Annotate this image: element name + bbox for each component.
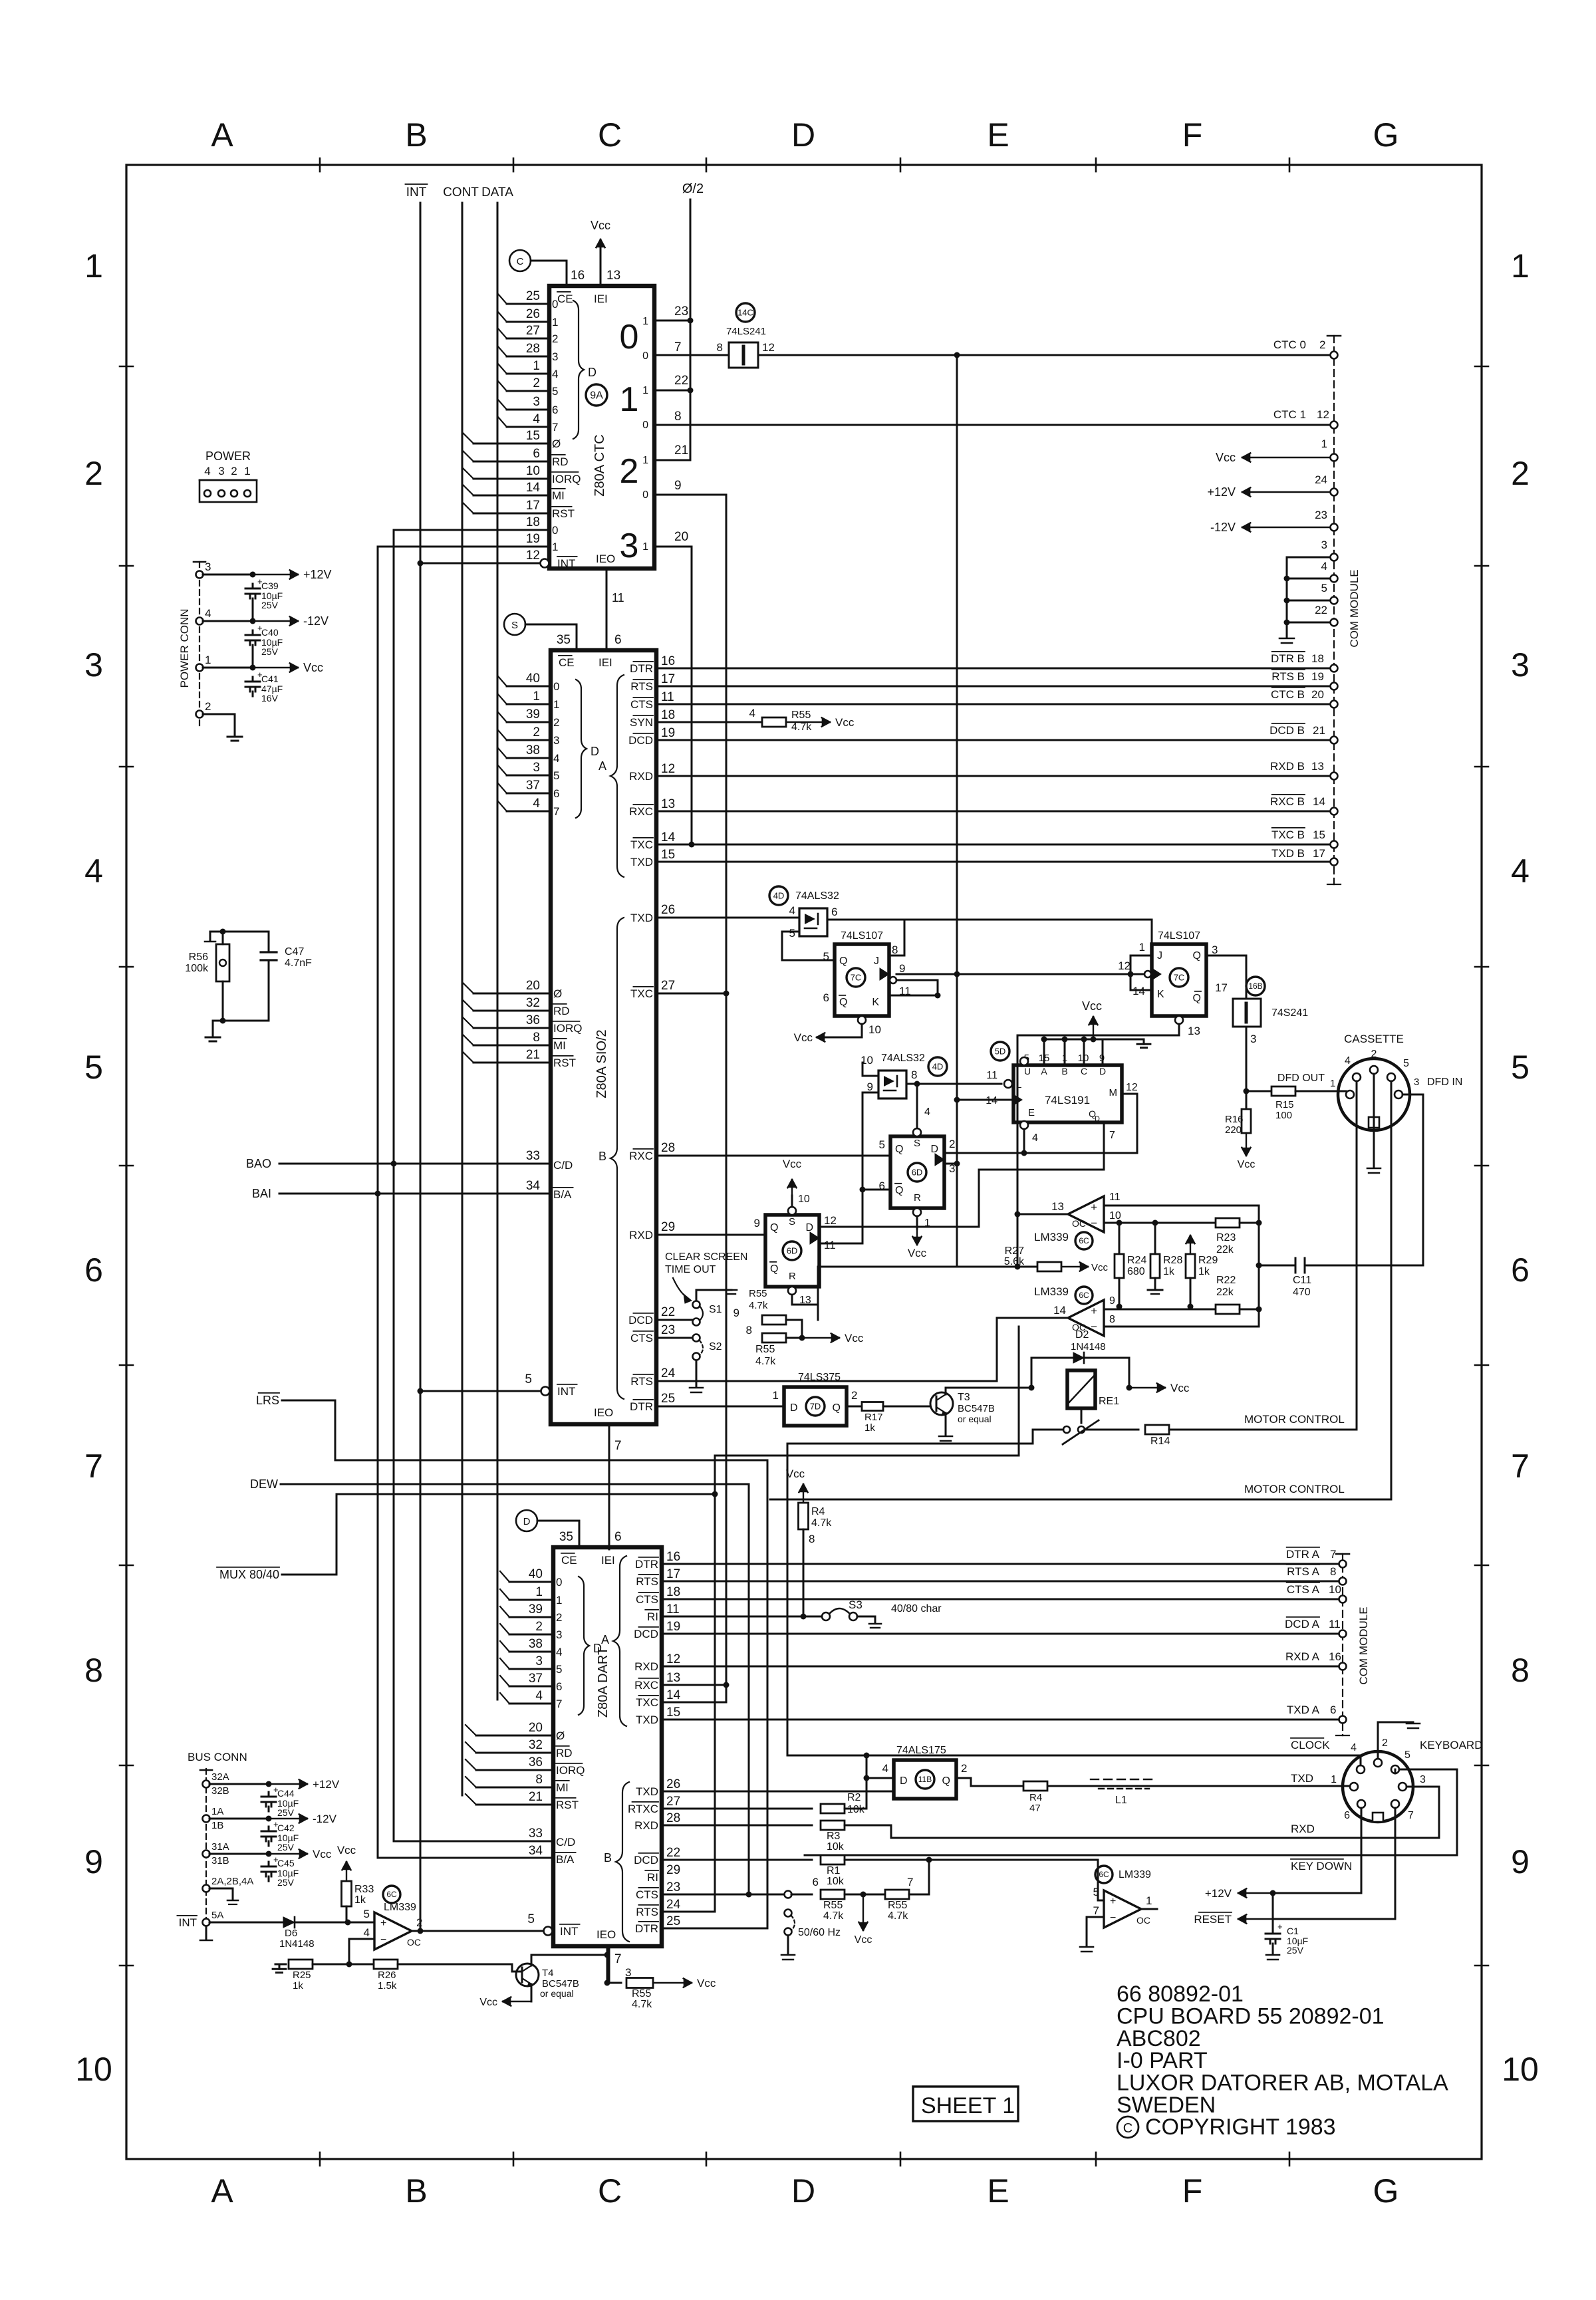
svg-text:Q: Q (1193, 950, 1201, 961)
keyboard pin 3 (1398, 1783, 1406, 1791)
svg-text:1k: 1k (1163, 1266, 1175, 1277)
wire CTC pin19 to trunk x568 (378, 546, 549, 548)
svg-text:7: 7 (1109, 1130, 1115, 1141)
IC 7C 74LS107 (left) body (835, 944, 889, 1016)
svg-text:27: 27 (666, 1795, 680, 1809)
designator 9A (586, 384, 607, 406)
wire keyboard CLOCK stub pin4 (1360, 1755, 1362, 1765)
svg-text:Ø: Ø (552, 438, 561, 450)
keyboard pin 4 (1357, 1765, 1365, 1773)
junction R27 node (1015, 1264, 1021, 1270)
svg-text:6: 6 (813, 1876, 819, 1888)
keyboard pin 5 (1391, 1765, 1399, 1773)
svg-text:DTR: DTR (635, 1558, 658, 1571)
svg-text:4: 4 (535, 1689, 543, 1703)
svg-text:100: 100 (1275, 1110, 1292, 1121)
wire FF Q up loop to comparator R27 line (818, 1267, 957, 1320)
svg-text:6: 6 (552, 404, 558, 416)
svg-text:40: 40 (526, 672, 540, 686)
svg-text:26: 26 (666, 1777, 680, 1791)
7C (right) pin 13 stub down (1175, 1016, 1183, 1024)
svg-text:6: 6 (823, 991, 829, 1004)
switch S3 40/80 char (822, 1612, 830, 1620)
cassette pin 5 (1387, 1073, 1395, 1081)
SIO chip-select circle S and wire to pin 35 CE (504, 614, 525, 635)
svg-text:RST: RST (553, 1057, 576, 1069)
svg-text:DTR B: DTR B (1271, 652, 1305, 665)
wire comp1 -input pin 10 (1104, 1222, 1216, 1224)
svg-text:15: 15 (666, 1706, 680, 1720)
keyboard pin 1 (1350, 1783, 1358, 1791)
svg-text:2: 2 (556, 1611, 562, 1624)
svg-text:4: 4 (924, 1106, 930, 1118)
resistor R56 100k / capacitor C47 network (220, 929, 226, 935)
svg-text:MI: MI (556, 1781, 569, 1794)
wire cassette pin5 down to motor control 2 (1391, 1081, 1393, 1499)
svg-text:35: 35 (557, 633, 571, 647)
svg-text:S: S (789, 1216, 795, 1227)
IC 6D flip-flop (right) body (890, 1136, 944, 1208)
svg-text:5: 5 (553, 769, 559, 782)
T3 collector wire to relay node (946, 1388, 1031, 1394)
wire SIO CTS A to COM B pin 20 (656, 703, 1330, 705)
svg-text:OC: OC (407, 1937, 421, 1948)
svg-text:36: 36 (529, 1755, 543, 1769)
svg-text:5: 5 (1404, 1749, 1410, 1761)
svg-text:47: 47 (1029, 1803, 1041, 1814)
svg-text:8: 8 (809, 1533, 815, 1545)
svg-text:6: 6 (84, 1251, 103, 1289)
svg-text:G: G (1373, 116, 1399, 154)
svg-text:20: 20 (526, 979, 540, 993)
svg-text:3: 3 (620, 527, 639, 565)
net trunk x1092 vertical (CTC pin9 baud clock down to DART RXC) (726, 495, 728, 1685)
svg-text:2: 2 (552, 332, 558, 345)
svg-text:4: 4 (882, 1762, 888, 1775)
cassette key notch (1369, 1117, 1379, 1128)
svg-text:6: 6 (533, 447, 540, 461)
cassette pin 2 (1370, 1066, 1378, 1074)
wire cassette pin3 DFD IN down to C11 line (1402, 1094, 1423, 1265)
capacitor C45 10uF 25V (268, 1862, 270, 1866)
svg-text:2: 2 (416, 1916, 422, 1929)
svg-text:MOTOR CONTROL: MOTOR CONTROL (1244, 1483, 1345, 1495)
junction relay left node (1029, 1385, 1035, 1391)
svg-text:1: 1 (556, 1594, 562, 1606)
svg-text:4.7k: 4.7k (755, 1356, 776, 1367)
svg-text:D: D (791, 2172, 815, 2210)
svg-text:+12V: +12V (303, 568, 332, 581)
svg-text:INT: INT (179, 1916, 197, 1929)
svg-text:2: 2 (961, 1762, 967, 1775)
svg-text:U: U (1024, 1066, 1031, 1077)
svg-text:C42: C42 (277, 1823, 295, 1833)
svg-text:SYN: SYN (630, 716, 653, 729)
resistor R55 4.7k (SYN pullup) (762, 717, 786, 727)
svg-text:Vcc: Vcc (1170, 1382, 1190, 1394)
wire DEW to DART CTS (281, 1484, 749, 1894)
SIO INT pin 5 with bubble (541, 1387, 550, 1396)
svg-text:IEO: IEO (594, 1406, 613, 1419)
COM B pin 2 CTC0 (1331, 352, 1338, 359)
svg-text:29: 29 (661, 1220, 675, 1234)
svg-text:9A: 9A (590, 390, 603, 402)
svg-text:+: + (1091, 1201, 1097, 1214)
svg-text:IEI: IEI (598, 656, 612, 669)
svg-text:F: F (1182, 116, 1203, 154)
svg-text:1: 1 (1330, 1078, 1335, 1089)
svg-text:TXD A: TXD A (1287, 1704, 1320, 1716)
wire SIO RXC B line to divider Q (658, 1155, 890, 1157)
svg-text:RXC B: RXC B (1270, 795, 1305, 808)
svg-text:13: 13 (666, 1671, 680, 1685)
svg-text:C/D: C/D (556, 1836, 575, 1849)
inductor L1 (dashed) (1091, 1779, 1157, 1780)
svg-text:21: 21 (674, 444, 688, 457)
wire comp2 output branch down x1532 (1018, 1327, 1020, 1456)
svg-text:4: 4 (749, 707, 755, 719)
svg-text:1k: 1k (293, 1980, 303, 1991)
DART control pins phi,RD,IORQ,M1,RST with bus entries (465, 1721, 585, 1811)
svg-text:470: 470 (1293, 1287, 1311, 1298)
grid column letters (211, 116, 1398, 2210)
svg-text:12: 12 (824, 1214, 837, 1227)
wire comp bottomright -input to ground (1087, 1917, 1104, 1946)
svg-text:680: 680 (1127, 1266, 1145, 1277)
svg-text:25: 25 (661, 1392, 675, 1406)
svg-text:Z80A SIO/2: Z80A SIO/2 (595, 1029, 609, 1098)
DART data pins D0-D7 (pins 40,1,39,2,38,3,37,4) with bus entries (500, 1567, 562, 1710)
svg-text:Q: Q (770, 1222, 778, 1233)
svg-text:1.5k: 1.5k (378, 1980, 397, 1991)
svg-text:12: 12 (1126, 1082, 1138, 1093)
svg-text:R15: R15 (1275, 1099, 1294, 1110)
grid ticks (120, 158, 1488, 2166)
svg-text:R2: R2 (847, 1792, 861, 1803)
svg-text:TXD: TXD (636, 1785, 658, 1798)
svg-text:13: 13 (1051, 1200, 1064, 1213)
svg-text:Q: Q (942, 1775, 950, 1787)
svg-text:1: 1 (533, 690, 540, 703)
svg-text:D: D (790, 1402, 798, 1414)
capacitor C44 10uF 25V (268, 1792, 270, 1797)
svg-text:37: 37 (529, 1672, 543, 1686)
svg-text:3: 3 (1414, 1077, 1419, 1088)
svg-text:3: 3 (205, 561, 211, 573)
svg-text:D: D (900, 1775, 908, 1787)
svg-text:3: 3 (533, 395, 540, 409)
svg-text:1: 1 (1146, 1894, 1152, 1907)
svg-text:8: 8 (911, 1069, 917, 1081)
capacitor C47 4.7nF (223, 932, 269, 952)
svg-text:KEYBOARD: KEYBOARD (1420, 1739, 1482, 1751)
wire 74ALS175 Q to keyboard TXD with R4 and L1 (956, 1778, 1346, 1786)
svg-text:2: 2 (620, 452, 639, 491)
svg-text:19: 19 (666, 1620, 680, 1634)
svg-text:RXD: RXD (634, 1660, 658, 1673)
svg-text:BUS CONN: BUS CONN (188, 1751, 247, 1763)
svg-text:Ø/2: Ø/2 (682, 182, 704, 196)
svg-text:3: 3 (1212, 944, 1218, 956)
svg-text:Z80A CTC: Z80A CTC (593, 434, 607, 496)
svg-text:6: 6 (553, 787, 559, 800)
svg-text:-12V: -12V (313, 1813, 337, 1825)
svg-text:25V: 25V (261, 600, 279, 610)
COM B pin RXD B 13 (1331, 773, 1338, 780)
POWER CONN pin 4 -12V (196, 618, 203, 625)
connector CASSETTE DIN body (1338, 1059, 1410, 1130)
wire SIO SYN pin18 to R55 pullup (656, 721, 762, 723)
svg-text:9: 9 (867, 1081, 873, 1093)
svg-text:Vcc: Vcc (1082, 999, 1102, 1013)
svg-text:15: 15 (526, 429, 540, 443)
svg-text:74ALS32: 74ALS32 (881, 1053, 925, 1064)
svg-text:J: J (874, 956, 879, 967)
svg-text:CTC B: CTC B (1271, 688, 1305, 701)
svg-text:4.7k: 4.7k (632, 1999, 652, 2010)
svg-text:−: − (380, 1934, 386, 1946)
junction BAO trunk (391, 1161, 397, 1167)
svg-text:C39: C39 (261, 580, 279, 591)
svg-text:7: 7 (84, 1448, 103, 1485)
SIO data bracket D (576, 680, 587, 818)
svg-text:220: 220 (1225, 1124, 1242, 1136)
wire DART RXD B via R3 (662, 1825, 812, 1827)
svg-text:2: 2 (851, 1389, 857, 1402)
COM B pin RXC B 14 (1331, 808, 1338, 815)
svg-text:4: 4 (533, 797, 540, 811)
resistor R16 220 (vertical) (1246, 1091, 1248, 1109)
svg-text:INT: INT (557, 1385, 575, 1398)
COM B pin 1 Vcc (1331, 454, 1338, 461)
wire DART CTS B to 50/60Hz switch (662, 1894, 785, 1896)
POWER CONN pin 3 +12V (196, 571, 203, 578)
svg-text:Ø: Ø (556, 1729, 565, 1742)
svg-text:DTR: DTR (630, 1400, 653, 1413)
svg-text:D6: D6 (285, 1928, 297, 1939)
COM B pin 12 CTC1 (1331, 422, 1338, 429)
svg-text:31A: 31A (211, 1841, 229, 1853)
svg-text:14: 14 (1053, 1304, 1066, 1317)
svg-text:2: 2 (535, 1620, 543, 1634)
svg-text:+: + (1277, 1922, 1283, 1932)
CTC chip-enable circle C and wire to pin 16 CE (509, 250, 531, 271)
svg-text:BAO: BAO (246, 1157, 271, 1170)
svg-text:12: 12 (666, 1652, 680, 1666)
junction R55 pair to Vcc (799, 1335, 805, 1341)
svg-text:R55: R55 (749, 1288, 767, 1299)
wire 6D left Q to SIO RXD29 (656, 1234, 765, 1236)
svg-text:S3: S3 (849, 1598, 863, 1611)
svg-text:J: J (1157, 950, 1162, 961)
wire MUX to trunk x1075 (282, 1494, 715, 1575)
svg-text:R55: R55 (632, 1988, 651, 1999)
svg-text:4: 4 (205, 607, 211, 620)
svg-text:C/D: C/D (553, 1159, 573, 1172)
svg-text:25V: 25V (277, 1877, 295, 1888)
svg-text:8: 8 (533, 1031, 540, 1045)
relay RE1 coil (1067, 1370, 1095, 1408)
svg-text:Q: Q (895, 1185, 903, 1196)
svg-text:CE: CE (561, 1554, 577, 1567)
svg-text:6C: 6C (1079, 1291, 1089, 1300)
svg-text:CTS: CTS (630, 698, 653, 711)
wire 7C left clock line from clock trunk (896, 973, 1152, 975)
svg-text:D: D (523, 1516, 531, 1527)
COM B pin DCD B 21 (1331, 737, 1338, 744)
svg-text:8: 8 (84, 1652, 103, 1689)
svg-text:4.7nF: 4.7nF (285, 958, 312, 969)
svg-text:LM339: LM339 (1034, 1231, 1069, 1243)
resistor R3 10k (821, 1821, 845, 1830)
svg-text:Vcc: Vcc (303, 661, 323, 674)
svg-text:+: + (1091, 1305, 1097, 1317)
wire comp bottomleft output to DART INT (412, 1930, 543, 1932)
net vertical x1040 (CTC pin20 down to SIO TXC A) (691, 547, 693, 844)
svg-text:7: 7 (674, 340, 682, 354)
svg-text:19: 19 (526, 532, 540, 546)
svg-text:2: 2 (533, 376, 540, 390)
svg-text:7: 7 (614, 1952, 622, 1966)
cassette pin 4 (1353, 1073, 1361, 1081)
capacitor C41 47uF 16V (252, 677, 254, 682)
svg-text:0: 0 (553, 680, 559, 693)
svg-text:DFD IN: DFD IN (1427, 1077, 1462, 1088)
svg-text:R4: R4 (811, 1506, 825, 1517)
svg-text:TXD: TXD (1291, 1772, 1313, 1785)
svg-text:1k: 1k (864, 1422, 875, 1434)
DART channel A bracket (613, 1556, 626, 1726)
IC 7C 74LS107 (right) body (1152, 944, 1206, 1016)
junction relay right node (1127, 1385, 1132, 1391)
svg-text:14: 14 (526, 481, 541, 495)
svg-text:RI: RI (647, 1610, 658, 1623)
svg-text:or equal: or equal (540, 1988, 574, 1999)
svg-text:1B: 1B (211, 1820, 223, 1831)
svg-text:R1: R1 (827, 1865, 841, 1876)
svg-text:A: A (598, 759, 606, 773)
diode D6 1N4148 (283, 1917, 295, 1928)
svg-text:17: 17 (1215, 981, 1228, 994)
svg-text:1k: 1k (1198, 1266, 1210, 1277)
svg-text:7: 7 (1511, 1448, 1529, 1485)
wire keyboard pin6 to +12V line (1361, 1808, 1363, 1893)
svg-text:19: 19 (661, 726, 675, 740)
svg-text:R55: R55 (755, 1344, 775, 1355)
buffer 16B 74S241 (1233, 999, 1261, 1027)
svg-text:10k: 10k (827, 1841, 845, 1853)
svg-text:D: D (591, 745, 599, 758)
svg-text:DCD: DCD (628, 1314, 653, 1327)
svg-text:1: 1 (1331, 1774, 1337, 1785)
svg-text:15: 15 (1313, 829, 1325, 841)
junction CTC0 / clock trunk x1439 (954, 352, 960, 358)
svg-text:22: 22 (674, 374, 688, 388)
svg-text:A: A (211, 116, 233, 154)
svg-text:RESET: RESET (1194, 1913, 1232, 1926)
svg-text:32B: 32B (211, 1785, 229, 1797)
svg-text:CE: CE (559, 656, 575, 669)
svg-text:10: 10 (798, 1194, 810, 1205)
svg-text:36: 36 (526, 1013, 540, 1027)
svg-text:12: 12 (1118, 959, 1130, 972)
svg-text:5.6k: 5.6k (1004, 1256, 1025, 1267)
wire comp bottomright output (1141, 1908, 1157, 1910)
wire SIO RTS A to COM B pin 19 (656, 686, 1330, 688)
border frame (126, 165, 1482, 2159)
svg-text:5: 5 (1511, 1049, 1529, 1086)
svg-text:R56: R56 (189, 952, 208, 963)
svg-text:A: A (1041, 1066, 1047, 1077)
svg-text:DEW: DEW (250, 1477, 278, 1491)
svg-text:13: 13 (606, 269, 620, 283)
svg-text:22k: 22k (1216, 1287, 1234, 1298)
svg-text:E: E (987, 116, 1009, 154)
DART channel B bracket (616, 1782, 629, 1942)
COM A pin 10 CTS A (1339, 1596, 1347, 1603)
svg-text:4: 4 (553, 752, 559, 765)
svg-text:3: 3 (1420, 1774, 1426, 1785)
resistor R17 1k (847, 1406, 863, 1408)
svg-text:C1: C1 (1287, 1926, 1299, 1936)
svg-text:1N4148: 1N4148 (1071, 1341, 1106, 1352)
COM B pin 24 +12V (1331, 489, 1338, 496)
svg-text:CTS: CTS (630, 1332, 653, 1344)
svg-text:1: 1 (244, 465, 250, 477)
wire comp bottomright +input from DCD B node (1098, 1860, 1104, 1900)
svg-text:37: 37 (526, 779, 540, 793)
keyboard pin 2 (1374, 1759, 1382, 1767)
svg-text:RXD: RXD (629, 770, 653, 783)
svg-text:7: 7 (1408, 1810, 1414, 1821)
svg-text:CTC 0: CTC 0 (1273, 338, 1306, 351)
svg-text:1: 1 (1321, 438, 1327, 450)
svg-text:RD: RD (556, 1747, 573, 1759)
svg-text:17: 17 (1313, 847, 1325, 860)
junction comp2 nodes (1256, 1307, 1262, 1313)
svg-text:M: M (1109, 1087, 1118, 1098)
svg-text:12: 12 (661, 762, 675, 776)
transistor T3 BC547B (930, 1392, 953, 1415)
svg-text:74LS191: 74LS191 (1045, 1094, 1090, 1106)
svg-text:14C: 14C (737, 308, 753, 318)
wire MOTOR CONTROL 2 (715, 1455, 1019, 1457)
POWER CONN pin 2 to ground (196, 711, 203, 718)
cassette pin2 wire to ground (1373, 1074, 1375, 1167)
title text block (1117, 1981, 1448, 2118)
svg-text:22: 22 (666, 1846, 680, 1860)
svg-text:4: 4 (556, 1646, 562, 1658)
svg-text:IEI: IEI (601, 1554, 615, 1567)
svg-text:17: 17 (526, 499, 540, 513)
svg-text:3: 3 (84, 646, 103, 684)
svg-text:25: 25 (526, 289, 540, 303)
svg-text:8: 8 (746, 1324, 752, 1337)
wire DART RTXC via R2 (662, 1808, 812, 1810)
svg-text:4: 4 (533, 412, 540, 426)
svg-text:7: 7 (552, 421, 558, 434)
svg-text:RXD A: RXD A (1285, 1650, 1320, 1663)
CTC IEO pin 11 stub (606, 569, 608, 650)
svg-text:6: 6 (831, 906, 837, 918)
resistor R24 680 (vertical) (1119, 1223, 1121, 1254)
wire relay switch left loop down (787, 1430, 1063, 1444)
svg-text:22: 22 (661, 1305, 675, 1319)
svg-text:7: 7 (553, 805, 559, 818)
svg-text:DFD OUT: DFD OUT (1277, 1073, 1325, 1084)
svg-text:9: 9 (733, 1307, 739, 1319)
gate 4D 74ALS32 (lower) body (878, 1071, 906, 1098)
